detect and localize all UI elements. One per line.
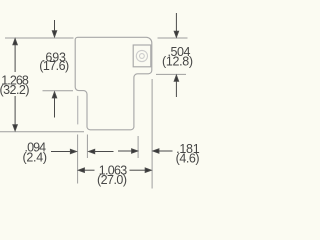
svg-text:(2.4): (2.4) (23, 151, 48, 165)
svg-text:(27.0): (27.0) (97, 173, 127, 187)
svg-text:(4.6): (4.6) (176, 152, 200, 166)
svg-text:(17.6): (17.6) (39, 59, 69, 73)
svg-text:(32.2): (32.2) (0, 83, 30, 97)
svg-text:(12.8): (12.8) (162, 55, 193, 69)
